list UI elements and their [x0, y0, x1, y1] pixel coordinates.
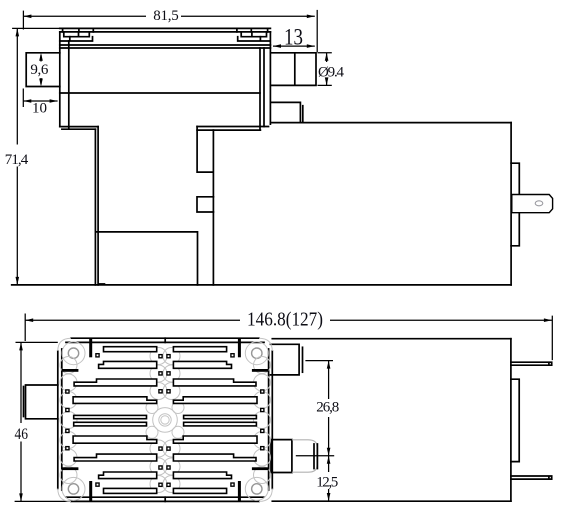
- inner square holes near spine: [96, 354, 234, 487]
- baseline: [12, 284, 511, 286]
- motor body right edge: [510, 339, 512, 502]
- motor brush cap band: [511, 163, 519, 246]
- svg-text:146.8(127): 146.8(127): [247, 309, 323, 331]
- left inlet port: [26, 53, 60, 87]
- cover inner border lines: [62, 342, 269, 497]
- right clip channel: [238, 37, 270, 41]
- grille slot L4: [73, 397, 157, 404]
- svg-text:12,5: 12,5: [316, 475, 338, 491]
- grille slot R3: [173, 379, 256, 386]
- right bracket step: [197, 127, 213, 285]
- pump head left wall: [60, 32, 69, 129]
- head flange bottom right: [197, 127, 268, 131]
- upper port center extension line: [305, 360, 333, 362]
- upper port cap line: [302, 347, 304, 372]
- grille lobe arcs center spine: [150, 348, 180, 493]
- dimension 46 arrows: [19, 342, 23, 350]
- terminal lower (top view): [511, 476, 552, 479]
- motor terminal (side view): [512, 195, 553, 213]
- corner screws: [68, 348, 78, 358]
- lower port stage 1: [271, 440, 292, 473]
- bracket notch: [197, 197, 213, 212]
- pump head right wall: [260, 32, 270, 130]
- lower port stage 2 (soft cap): [292, 440, 317, 472]
- dimension 46 extension lines: [15, 342, 71, 501]
- lower port centerline: [296, 455, 334, 457]
- horizontal black bar left upper: [62, 369, 79, 372]
- grille slot R7: [173, 436, 257, 443]
- grille slot R2: [173, 361, 231, 368]
- dimension 10 arrows: [23, 99, 31, 103]
- dimension 46 line: [20, 342, 22, 501]
- svg-text:26,8: 26,8: [316, 400, 339, 416]
- horizontal black bar right lower: [252, 467, 269, 470]
- svg-text:46: 46: [15, 426, 29, 443]
- upper port (top view): [271, 344, 300, 375]
- spine square holes: [159, 355, 170, 487]
- svg-text:13: 13: [284, 25, 303, 50]
- right clip box: [241, 32, 266, 37]
- vertical black bar top right: [238, 338, 241, 357]
- step block under outlet port: [272, 102, 303, 122]
- dimension 71,4 extension top: [12, 27, 60, 29]
- dimension diameter 9.4 line: [326, 53, 328, 86]
- grille slot R4: [173, 397, 257, 404]
- dimension 10 line: [23, 100, 57, 102]
- center boss: [153, 408, 178, 433]
- vertical black bar bottom right: [238, 481, 241, 501]
- dimension 12,5 line: [328, 456, 330, 501]
- terminal upper (top view): [511, 362, 552, 365]
- left leg: [95, 127, 98, 285]
- horizontal black bar left lower: [62, 467, 79, 470]
- svg-text:71,4: 71,4: [5, 152, 29, 168]
- head flange bottom left: [60, 127, 98, 130]
- svg-text:81,5: 81,5: [153, 8, 179, 24]
- grille slot L8: [74, 454, 157, 461]
- motor brush band (top view): [511, 379, 519, 461]
- motor body (top view) top line: [272, 338, 511, 340]
- grille slot L7: [73, 436, 157, 443]
- pump head top plate double lines: [60, 45, 271, 48]
- motor body bottom line: [272, 500, 511, 502]
- dimension 13 line: [273, 45, 315, 47]
- dimension 71,4 line: [16, 28, 18, 285]
- dimension 71,4 arrows: [16, 28, 20, 36]
- grille slot R8: [173, 454, 256, 461]
- dimension diameter 9.4 extension lines: [318, 53, 332, 86]
- dimension 12,5 arrows: [327, 456, 331, 464]
- dimension 9,6 arrows: [40, 55, 42, 85]
- grille slot R10: [173, 488, 226, 493]
- grille slot L3: [74, 379, 157, 386]
- dimension 146.8(127) extension lines: [25, 314, 552, 361]
- center alignment ticks: [164, 338, 166, 501]
- tab back washer line: [23, 387, 25, 417]
- left clip box: [64, 32, 90, 37]
- dimension 10 extension line: [22, 89, 24, 108]
- right outlet port: [271, 53, 316, 86]
- grille slot R1: [173, 347, 226, 352]
- pump head clamp bar bottom line: [60, 31, 271, 33]
- dimension 146.8(127) line: [25, 319, 552, 321]
- pump head top line: [60, 27, 271, 29]
- motor top lines: [272, 122, 511, 124]
- dimension 13 arrows: [273, 44, 281, 48]
- dimension 26,8 arrows: [327, 361, 331, 369]
- svg-text:Ø9.4: Ø9.4: [318, 65, 345, 81]
- left mounting tab: [26, 385, 58, 419]
- grille slot L6: [74, 422, 147, 426]
- terminal hole: [535, 201, 543, 206]
- vertical black bar bottom left: [89, 481, 92, 501]
- grille lobe arcs left column: [60, 357, 77, 484]
- grille slot R5: [184, 415, 257, 418]
- border square holes right: [261, 390, 264, 450]
- grille slot L1: [104, 347, 157, 352]
- corner screw pads: [62, 342, 85, 365]
- grille slot L9: [99, 472, 157, 479]
- cover outer corner arcs: [58, 338, 272, 501]
- motor right edge: [510, 123, 512, 285]
- grille slot L10: [104, 488, 157, 493]
- grille slot R9: [173, 472, 231, 479]
- dimension 81,5 extension line right: [316, 10, 318, 52]
- grille slot R6: [184, 422, 257, 426]
- left clip channel: [60, 37, 93, 41]
- clamp bar dividers: [63, 28, 268, 32]
- dimension 81,5 line: [23, 15, 314, 17]
- horizontal black bar right upper: [252, 369, 269, 372]
- dimension 146.8(127) arrows: [25, 318, 33, 322]
- vertical black bar top left: [89, 338, 92, 357]
- dimension 81,5 extension line left: [22, 11, 24, 30]
- boss petals: [146, 402, 158, 414]
- grille slot L2: [99, 361, 157, 368]
- lower port cap lines: [314, 444, 317, 469]
- left leg foot mark: [98, 283, 105, 285]
- pump head cover outer border: [58, 338, 272, 501]
- base plate line: [97, 232, 198, 285]
- grille slot L5: [74, 415, 147, 418]
- border square holes left: [66, 390, 69, 450]
- svg-text:9,6: 9,6: [30, 62, 49, 78]
- dimension 81,5 arrows: [23, 15, 31, 19]
- pump head bottom internal line: [60, 92, 260, 94]
- svg-text:10: 10: [32, 101, 47, 117]
- grille lobe arcs right column: [254, 357, 271, 484]
- dimension diameter 9.4 arrows: [325, 53, 329, 61]
- dimension 26,8 line: [328, 361, 330, 456]
